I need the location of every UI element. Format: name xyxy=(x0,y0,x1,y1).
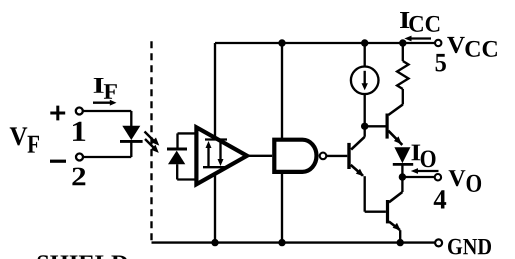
minus sign (cathode polarity) xyxy=(50,160,66,163)
label VCC xyxy=(447,37,497,57)
wire VCC rail to amplifier top xyxy=(214,43,216,137)
wire current source to node A xyxy=(364,94,366,137)
transistor Q3 (lower output, pull-down) xyxy=(386,192,403,243)
pin 1 terminal (anode) xyxy=(76,108,83,115)
label VO xyxy=(449,170,482,192)
wire pin2 to LED cathode xyxy=(83,156,131,158)
node dot rail/NAND supply xyxy=(278,39,285,46)
VO pin 4 terminal xyxy=(435,174,441,180)
wire amplifier bottom to GND rail xyxy=(214,174,216,242)
hysteresis symbol inside U1 xyxy=(203,140,227,168)
transistor Q1 (upper output, emitter follower) xyxy=(386,105,403,145)
GND bottom rail wire xyxy=(152,241,436,243)
node VO dot xyxy=(399,173,406,180)
label ICC (supply current) xyxy=(400,12,439,32)
node dot rail/current source xyxy=(361,39,368,46)
photodiode D3 top wire xyxy=(178,132,197,134)
light coupling arrow 2 xyxy=(145,139,159,153)
IO current arrow xyxy=(411,168,439,174)
wire node A to Q1 base xyxy=(365,125,386,127)
resistor R1 xyxy=(397,43,408,105)
photodiode D3 xyxy=(167,133,187,179)
pin 2 number label xyxy=(72,168,85,186)
label SHIELD (clipped at bottom) xyxy=(38,255,128,259)
light coupling arrow 1 xyxy=(145,132,160,146)
LED D1 (input emitter diode) xyxy=(120,111,143,157)
wire NAND bottom to GND rail xyxy=(281,172,283,243)
label VF xyxy=(10,127,39,152)
IF current arrow xyxy=(93,100,117,106)
node dot rail/resistor xyxy=(399,39,406,46)
diode D2 (output series diode) xyxy=(393,147,413,177)
node A dot (current source / Q1 base / Q2 collector) xyxy=(361,123,368,130)
wire pin1 to LED anode xyxy=(83,110,131,112)
label GND xyxy=(448,239,491,255)
wire VO node to pin 4 xyxy=(402,176,434,178)
NAND gate U2 xyxy=(274,140,316,172)
GND pin terminal xyxy=(435,239,442,246)
VCC pin 5 terminal xyxy=(435,40,441,46)
wire NAND output to Q2 base xyxy=(327,155,347,157)
current source I1 xyxy=(351,67,379,95)
node dot Q3 emitter/GND rail xyxy=(397,239,404,246)
op-amp U1 (amplifier with hysteresis) xyxy=(196,127,247,184)
wire U1 output to NAND input xyxy=(248,155,272,157)
NAND output bubble xyxy=(320,153,327,160)
label IO (output current) xyxy=(412,145,436,168)
photodiode D3 bottom wire xyxy=(177,178,196,180)
isolation boundary dashed line xyxy=(150,41,152,242)
node dot NAND/GND rail xyxy=(278,239,285,246)
plus sign (anode polarity) xyxy=(50,106,65,121)
label IF (forward current) xyxy=(94,78,117,99)
pin 4 number label xyxy=(434,190,447,208)
VCC top rail wire xyxy=(215,42,435,44)
wire Q2 emitter down xyxy=(364,176,366,212)
pin 1 number label xyxy=(73,122,85,141)
node dot amp/GND rail xyxy=(211,239,218,246)
wire rail to current source xyxy=(364,43,366,67)
wire VO node to Q3 collector xyxy=(401,177,403,192)
wire VCC rail to NAND top xyxy=(281,43,283,140)
ICC current arrow xyxy=(404,36,431,42)
pin 5 number label xyxy=(436,54,446,72)
pin 2 terminal (cathode) xyxy=(76,154,83,161)
wire to Q3 base xyxy=(365,211,386,213)
transistor Q2 (phase splitter) xyxy=(347,137,364,177)
